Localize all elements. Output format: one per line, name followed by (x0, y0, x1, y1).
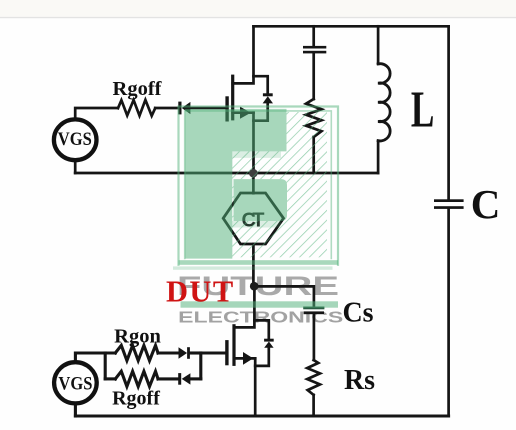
diode D2 (points right) (179, 347, 190, 359)
wire right vertical lower (447, 209, 450, 416)
resistor Rgoff (lower) (115, 371, 158, 386)
wire diode to gate M1 (190, 107, 227, 110)
svg-text:DUT: DUT (166, 275, 235, 309)
svg-text:Rgoff: Rgoff (112, 387, 160, 409)
node A (mid line junction) (249, 169, 258, 178)
transistor M1 drain lead (233, 26, 254, 83)
capacitor Cs (303, 307, 324, 315)
source VGS1 (54, 119, 97, 160)
wire mid branch top (312, 26, 315, 46)
inductor L coils (378, 64, 390, 141)
wire M2 source to bottom rail (254, 358, 257, 416)
transistor M2 channel bar (232, 326, 235, 365)
resistor Rgoff (upper) (118, 100, 155, 116)
wire VGS1 top lead (75, 108, 118, 118)
watermark logo square overlay (173, 107, 338, 308)
wire resistor to diode (155, 107, 178, 110)
svg-text:Rs: Rs (344, 365, 375, 396)
svg-text:Rgon: Rgon (114, 325, 161, 347)
wire junction to gate M2 (201, 351, 227, 354)
svg-text:VGS: VGS (58, 374, 92, 394)
wire bottom branch left (105, 377, 115, 380)
wire Cs to Rs (313, 314, 316, 360)
transistor M2 source lead with arrow (234, 357, 255, 360)
wire CT to DUT drain node (252, 244, 255, 286)
transistor M1 gate bar (225, 98, 228, 120)
diode D3 (points left) (178, 373, 190, 385)
wire VGS1 bottom lead (74, 162, 77, 173)
wire Rs to bottom rail (312, 395, 315, 416)
source VGS2 (54, 362, 97, 403)
transistor M1 source lead with arrow (233, 111, 254, 114)
watermark text FUTURE (under circuit) (177, 271, 344, 326)
wire VGS2 top lead (75, 353, 115, 360)
wire VGS2 bottom lead (74, 405, 77, 416)
wire capacitor to resistor (312, 53, 315, 99)
svg-text:C: C (471, 181, 501, 227)
resistor Rgon (115, 345, 158, 360)
wire top rail (254, 25, 449, 28)
wire bottom rail (75, 415, 448, 418)
wire right vertical upper (447, 26, 450, 199)
svg-text:Rgoff: Rgoff (113, 78, 163, 100)
current transformer CT hexagon (223, 193, 283, 244)
transistor M2 gate bar (225, 342, 228, 364)
wire mid horizontal line (75, 172, 378, 175)
inductor L top lead (377, 26, 380, 64)
capacitor (snubber, top middle) (303, 46, 326, 53)
wire node to Cs branch (254, 286, 314, 306)
diode M2 body branch (254, 320, 268, 339)
diode M1 body branch (254, 76, 268, 93)
svg-text:Cs: Cs (342, 298, 373, 329)
wire D3 to junction right (190, 377, 201, 380)
wire Rgoff to diode D3 (158, 377, 178, 380)
transistor M2 DUT drain lead (234, 286, 254, 327)
wire Rgon to diode D2 (158, 351, 179, 354)
node B (DUT drain junction) (250, 282, 259, 291)
resistor (snubber, vertical) (306, 99, 322, 137)
svg-text:VGS: VGS (58, 130, 92, 150)
wire D2 to junction right (190, 351, 201, 354)
resistor Rs (307, 360, 320, 395)
wire inductor bottom lead (377, 141, 380, 173)
transistor M1 channel bar (231, 76, 234, 119)
diode D1 (points left) (178, 102, 190, 115)
wire junction left vertical (104, 353, 107, 379)
wire node to CT (252, 173, 255, 193)
wire junction right vertical (199, 353, 202, 379)
svg-text:L: L (411, 81, 435, 138)
wire M1 source down to node (252, 113, 255, 173)
capacitor C (434, 199, 464, 209)
wire resistor to mid line (312, 137, 315, 173)
